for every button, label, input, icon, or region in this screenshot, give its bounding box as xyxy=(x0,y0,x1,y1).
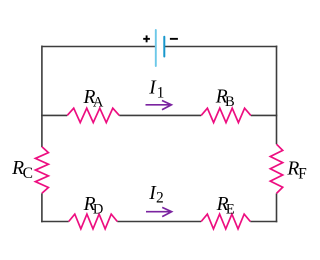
svg-text:RC: RC xyxy=(11,158,33,182)
battery label - xyxy=(170,38,178,40)
resistor R_E xyxy=(201,214,250,229)
svg-text:I1: I1 xyxy=(148,78,164,102)
wire bottom-left xyxy=(41,221,69,223)
wire bottom-center xyxy=(117,221,201,223)
current arrow I2 xyxy=(146,207,172,216)
svg-text:RF: RF xyxy=(286,159,307,183)
wire middle-center xyxy=(119,114,201,116)
svg-text:RE: RE xyxy=(216,194,235,217)
resistor R_D xyxy=(69,214,118,229)
wire top-left (battery + lead) xyxy=(42,46,155,48)
resistor R_F xyxy=(270,144,282,193)
wire middle-left xyxy=(41,114,67,116)
wire right upper xyxy=(276,46,278,145)
resistor R_B xyxy=(201,108,251,122)
svg-text:RA: RA xyxy=(83,87,104,110)
wire middle-right xyxy=(251,114,277,116)
wire top-right (battery - lead) xyxy=(165,46,277,48)
wire left lower xyxy=(41,193,43,222)
wire right lower xyxy=(276,193,278,222)
resistor R_A xyxy=(67,108,119,122)
svg-text:RD: RD xyxy=(83,194,104,217)
battery label + xyxy=(143,35,150,42)
wire bottom-right xyxy=(250,221,277,223)
battery plate + (long) xyxy=(155,30,157,66)
battery plate - (short) xyxy=(163,37,165,57)
current arrow I1 xyxy=(146,101,172,110)
svg-text:I2: I2 xyxy=(148,183,163,207)
wire left upper xyxy=(41,46,43,148)
svg-text:RB: RB xyxy=(215,87,235,110)
resistor R_C xyxy=(35,147,48,194)
